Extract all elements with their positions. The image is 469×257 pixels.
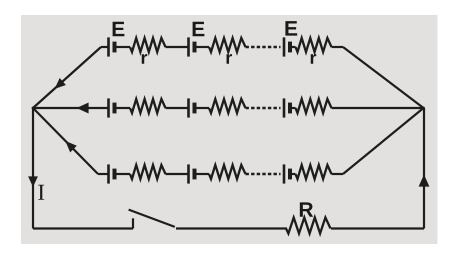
label r (internal resistance 1) <box>142 54 148 64</box>
label E (cell 2 emf) <box>193 22 205 36</box>
wire <box>292 173 296 175</box>
cell E row2 #1 <box>109 98 115 117</box>
wire: row 3 stub to first cell <box>98 173 109 175</box>
resistor r (row 1 #3) <box>296 38 332 52</box>
wire <box>166 173 189 175</box>
resistor r (row 3 #2) <box>209 165 246 179</box>
arrow: current direction (upward) on right vertical <box>419 175 430 187</box>
wire <box>197 173 210 175</box>
wire: dashed continuation row 2 <box>246 107 281 109</box>
node A (left junction) <box>32 107 35 110</box>
wire: row 2 to node B <box>332 107 424 109</box>
resistor r (row 2 #2) <box>209 99 246 113</box>
wire <box>332 173 344 175</box>
resistor r (row 1 #1) <box>130 38 166 52</box>
wire <box>117 46 131 48</box>
cell E row2 #2 <box>189 98 195 117</box>
cell E row1 #2 <box>189 37 195 56</box>
resistor r (row 2 #3) <box>296 99 332 113</box>
switch S (open knife switch) <box>129 210 175 229</box>
label E (cell 3 emf) <box>285 21 297 35</box>
cell E row2 #3 <box>284 98 290 117</box>
arrow: current toward node A on row 2 <box>77 103 89 114</box>
label r (internal resistance 3) <box>311 54 317 64</box>
wire <box>197 107 210 109</box>
wire: row 2 from node A to first cell <box>33 107 109 109</box>
wire: dashed continuation row 1 <box>246 46 281 48</box>
wire: left vertical from node A down to bottom rail <box>32 108 34 229</box>
resistor r (row 3 #1) <box>130 165 166 179</box>
cell E row3 #2 <box>189 164 195 183</box>
wire: row 1 stub to first cell <box>101 46 109 48</box>
label R <box>300 202 313 216</box>
schematic background panel <box>21 15 438 244</box>
wire: right vertical from bottom rail up to node B <box>423 108 425 229</box>
wire: bottom rail right segment <box>331 227 424 229</box>
resistor r (row 3 #3) <box>296 165 332 179</box>
wire: diagonal from node A up to row 1 <box>33 47 101 108</box>
cell E row1 #1 <box>109 37 115 56</box>
arrow: current toward node A on row-3 diagonal <box>65 141 77 153</box>
cell E row1 #3 <box>284 37 290 56</box>
resistor R (external) <box>286 218 331 234</box>
wire: dashed continuation row 3 <box>246 173 281 175</box>
resistor r (row 1 #2) <box>209 38 246 52</box>
label r (internal resistance 2) <box>226 54 232 64</box>
arrow: current toward node A on row-1 diagonal <box>55 78 66 89</box>
wire <box>332 46 344 48</box>
cell E row3 #3 <box>284 164 290 183</box>
wire: diagonal from row 3 up to node B <box>343 108 424 174</box>
wire <box>292 46 296 48</box>
arrow: current direction I (downward) on left vertical <box>28 176 38 187</box>
wire <box>292 107 296 109</box>
wire: bottom rail left segment <box>33 227 133 229</box>
label I (current) <box>38 185 44 200</box>
wire <box>117 173 131 175</box>
wire <box>166 46 189 48</box>
wire <box>197 46 210 48</box>
node B (right junction) <box>422 107 425 110</box>
label E (cell 1 emf) <box>113 22 125 36</box>
wire: diagonal from node A down to row 3 <box>33 108 98 174</box>
wire <box>117 107 131 109</box>
wire: diagonal from row 1 down to node B <box>343 47 424 108</box>
wire <box>166 107 189 109</box>
cell E row3 #1 <box>109 164 115 183</box>
resistor r (row 2 #1) <box>130 99 166 113</box>
wire: bottom rail middle segment <box>176 227 287 229</box>
